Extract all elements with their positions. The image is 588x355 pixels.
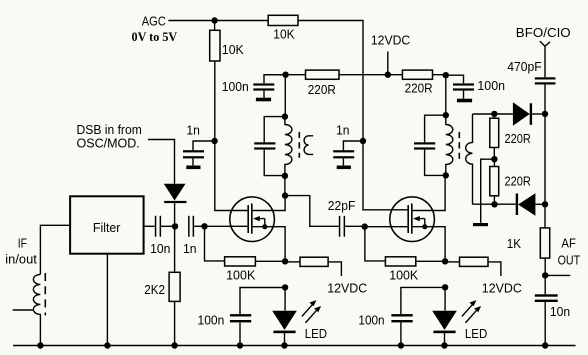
MOSFET Q1 xyxy=(230,196,285,262)
wire secondary2 bottom to diode 2 xyxy=(473,203,516,205)
wire 12VDC rail xyxy=(264,74,446,76)
inductor transformer 2 primary xyxy=(446,115,453,175)
node rail 100n 1 xyxy=(237,342,243,348)
node drain Q1 xyxy=(282,192,288,198)
resistor 10K series (AGC to gate2 Q2) xyxy=(268,15,298,25)
svg-text:AGC: AGC xyxy=(142,13,166,28)
resistor 220R bias lower xyxy=(490,159,531,204)
capacitor 100n decoupling 2 xyxy=(446,75,505,98)
wire gate1 Q2 node down to 100K 2 xyxy=(365,227,386,261)
wire drain node to 22pF xyxy=(285,196,339,227)
resistor 100K 2 xyxy=(385,257,445,283)
capacitor 10n output xyxy=(535,294,570,345)
diode 2 (from BFO node) xyxy=(516,193,545,215)
resistor source 2 to 12VDC xyxy=(445,257,522,295)
capacitor 10n coupling xyxy=(144,216,175,256)
node rail filter xyxy=(104,342,110,348)
wire rail down to tuned circuit 1 xyxy=(284,75,286,117)
node tuned circuit 2 bottom xyxy=(443,172,449,178)
resistor 100K 1 xyxy=(225,257,286,283)
resistor 220R supply 2 xyxy=(402,70,432,79)
wire ground rail xyxy=(13,345,576,347)
wire 12VDC stub xyxy=(387,52,389,75)
node source Q1 / 100K xyxy=(282,258,288,264)
inductor transformer 1 secondary xyxy=(304,136,313,155)
MOSFET Q2 xyxy=(390,175,445,261)
capacitor 1n gate2 bypass 1 xyxy=(183,122,215,165)
svg-text:470pF: 470pF xyxy=(507,59,542,74)
svg-text:100K: 100K xyxy=(389,267,418,282)
node tuned circuit 1 bottom xyxy=(282,173,288,179)
svg-text:0V to 5V: 0V to 5V xyxy=(132,29,178,44)
capacitor 1n coupling xyxy=(183,216,205,256)
wire rail down to tuned circuit 2 xyxy=(445,75,447,115)
ground (1n bypass 1) xyxy=(186,166,200,170)
capacitor tuned circuit 1 xyxy=(254,117,285,176)
wire to gate1 Q1 xyxy=(205,225,248,227)
inductor transformer 1 primary xyxy=(285,117,292,176)
resistor source 1 to 12VDC xyxy=(285,257,367,295)
wire to gate1 Q2 xyxy=(365,226,408,228)
node source Q2 / 100K xyxy=(442,258,448,264)
node rail 2K2 xyxy=(171,342,177,348)
ground (diode bias) xyxy=(473,223,488,226)
capacitor 470pF xyxy=(507,59,555,114)
node rail 10n xyxy=(542,342,548,348)
svg-text:100n: 100n xyxy=(477,78,505,93)
capacitor 100n source bypass 1 xyxy=(198,288,286,346)
node gate 1 Q2 xyxy=(362,223,368,229)
ground (100n 2) xyxy=(457,99,472,103)
node tuned circuit 1 top xyxy=(282,113,288,119)
inductor transformer 2 secondary xyxy=(466,114,473,204)
wire AGC to node xyxy=(168,20,268,22)
svg-text:12VDC: 12VDC xyxy=(482,280,522,295)
resistor 220R supply 1 xyxy=(306,70,340,79)
wire BFO node down xyxy=(544,114,546,228)
LED 1 xyxy=(272,287,297,345)
node 220R top xyxy=(491,111,497,117)
svg-text:100n: 100n xyxy=(198,312,225,327)
wire mid node to ground xyxy=(481,159,495,223)
inductor IF in/out coil xyxy=(33,274,40,345)
svg-text:22pF: 22pF xyxy=(328,198,356,213)
LED 2 xyxy=(432,287,457,345)
node diode 1 / 470pF xyxy=(542,111,548,117)
node 12VDC xyxy=(385,72,391,78)
LED 2 arrows xyxy=(462,300,481,323)
wire tuned1 bottom to drain node xyxy=(284,176,286,196)
node 10n/diode/2K2 xyxy=(172,223,178,229)
svg-text:2K2: 2K2 xyxy=(144,282,165,297)
capacitor 100n decoupling 1 xyxy=(222,75,286,98)
IF coil core xyxy=(44,273,46,315)
node AF OUT xyxy=(542,272,548,278)
node 1n bypass 2 xyxy=(360,138,366,144)
node rail to tuned circuit 2 xyxy=(443,72,449,78)
svg-text:OSC/MOD.: OSC/MOD. xyxy=(77,136,140,151)
svg-text:10K: 10K xyxy=(222,42,244,57)
wire DSB input xyxy=(148,140,175,184)
svg-text:12VDC: 12VDC xyxy=(327,280,367,295)
node source Q2 / LED xyxy=(442,284,448,290)
svg-text:100K: 100K xyxy=(226,267,256,282)
svg-text:LED: LED xyxy=(465,326,487,341)
resistor 220R bias upper xyxy=(490,114,531,159)
wire filter left to IF coil xyxy=(40,225,70,274)
node rail 100n 2 xyxy=(398,342,404,348)
svg-text:220R: 220R xyxy=(308,82,336,97)
svg-text:100n: 100n xyxy=(358,313,384,328)
wire secondary2 top to diode 1 xyxy=(473,113,513,115)
wire filter bottom to ground rail xyxy=(106,254,108,346)
capacitor 1n gate2 bypass 2 xyxy=(333,122,363,165)
svg-text:Filter: Filter xyxy=(93,220,121,235)
svg-text:220R: 220R xyxy=(405,81,433,96)
svg-text:1K: 1K xyxy=(507,236,522,251)
node diode 2 / 1K xyxy=(542,201,548,207)
wire 10K to bend xyxy=(298,21,408,210)
capacitor 22pF xyxy=(328,198,365,237)
svg-text:100n: 100n xyxy=(222,79,249,94)
resistor 1K xyxy=(507,228,550,294)
node rail LED 2 xyxy=(441,342,447,348)
capacitor 100n source bypass 2 xyxy=(358,287,445,345)
svg-text:IF: IF xyxy=(18,236,27,251)
transformer 1 core xyxy=(298,132,300,158)
transformer 2 core xyxy=(458,132,460,159)
Filter box xyxy=(70,196,144,253)
svg-text:1n: 1n xyxy=(186,122,200,137)
resistor 2K2 xyxy=(144,226,180,345)
svg-text:220R: 220R xyxy=(505,174,531,189)
diode DSB switch xyxy=(164,184,187,227)
svg-text:BFO/CIO: BFO/CIO xyxy=(516,25,571,40)
resistor 10K shunt (AGC to gate2 Q1) xyxy=(210,30,220,61)
wire gate1 Q1 node down to 100K 1 xyxy=(205,226,225,261)
svg-text:1n: 1n xyxy=(336,122,350,137)
svg-text:LED: LED xyxy=(305,326,327,341)
BFO input terminal Y xyxy=(540,41,550,77)
diode 1 (to BFO node) xyxy=(513,102,545,126)
node rail LED 1 xyxy=(281,342,287,348)
wire IF tap xyxy=(13,309,33,311)
svg-text:10n: 10n xyxy=(550,304,570,319)
node 1n bypass 1 xyxy=(211,138,217,144)
wire 10K down to gate2 Q1 xyxy=(215,61,248,211)
svg-text:DSB in from: DSB in from xyxy=(77,122,142,137)
node tuned circuit 2 top xyxy=(443,112,449,118)
svg-text:12VDC: 12VDC xyxy=(371,33,410,48)
node 220R bottom xyxy=(491,201,497,207)
svg-text:1n: 1n xyxy=(183,241,197,256)
node AGC xyxy=(211,17,217,23)
svg-text:AF: AF xyxy=(561,235,576,250)
svg-text:in/out: in/out xyxy=(5,251,37,266)
svg-text:220R: 220R xyxy=(505,131,531,146)
capacitor tuned circuit 2 xyxy=(414,115,446,175)
svg-text:OUT: OUT xyxy=(558,253,581,268)
LED 1 arrows xyxy=(302,300,321,323)
ground (1n bypass 2) xyxy=(337,166,351,170)
node rail to tuned circuit 1 xyxy=(282,72,288,78)
svg-text:10n: 10n xyxy=(150,241,170,256)
ground (100n 1) xyxy=(256,98,271,102)
svg-text:10K: 10K xyxy=(273,27,295,42)
node 220R mid xyxy=(491,156,497,162)
wire AF OUT stub xyxy=(545,274,570,276)
node gate 1 Q1 xyxy=(201,223,207,229)
node rail IF coil xyxy=(37,342,43,348)
node source Q1 / LED xyxy=(282,284,288,290)
wire AGC node to 10K xyxy=(214,21,216,31)
